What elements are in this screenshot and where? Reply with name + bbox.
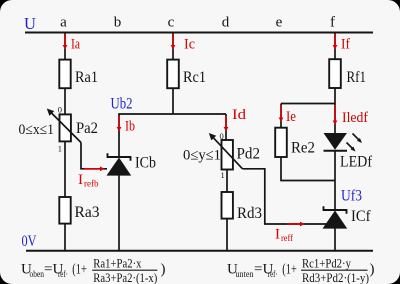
svg-text:Re2: Re2 bbox=[291, 140, 315, 157]
current arrow Ib bbox=[117, 116, 122, 131]
IC ICf cathode bar bbox=[324, 206, 347, 213]
svg-text:I: I bbox=[78, 172, 83, 188]
svg-text:Id: Id bbox=[232, 107, 247, 123]
svg-text:1: 1 bbox=[58, 144, 62, 154]
svg-text:Ra1: Ra1 bbox=[75, 69, 98, 86]
svg-text:ref·: ref· bbox=[58, 269, 68, 279]
svg-text:): ) bbox=[370, 262, 375, 278]
svg-text:Uf3: Uf3 bbox=[341, 188, 362, 205]
label Irefb bbox=[78, 172, 99, 189]
potentiometer Pd2 bbox=[222, 140, 233, 170]
ICf anode triangle bbox=[323, 211, 348, 229]
current arrow Irefb bbox=[84, 166, 104, 171]
svg-text:): ) bbox=[161, 262, 166, 278]
svg-text:Ie: Ie bbox=[286, 109, 296, 125]
svg-text:ICb: ICb bbox=[135, 155, 156, 172]
formula Uunten bbox=[227, 255, 375, 284]
svg-text:Pa2: Pa2 bbox=[76, 120, 98, 137]
potentiometer Pa2 bbox=[60, 114, 71, 141]
svg-text:Rd3: Rd3 bbox=[237, 205, 262, 222]
wire ICf to rail bbox=[334, 228, 336, 251]
svg-text:Rf1: Rf1 bbox=[347, 69, 367, 86]
current arrow If bbox=[333, 34, 338, 49]
wire Ub2 node bbox=[119, 114, 226, 156]
wire Pa2 to Ra3 bbox=[64, 141, 66, 197]
wire LED to ICf bbox=[334, 151, 336, 210]
svg-text:unten: unten bbox=[236, 269, 254, 279]
svg-text:Rd3+Pd2·(1-y): Rd3+Pd2·(1-y) bbox=[302, 270, 369, 284]
IC ICb cathode bar bbox=[108, 153, 131, 160]
svg-text:reff: reff bbox=[281, 233, 293, 243]
node 0V rail (bottom ground rail) bbox=[26, 250, 373, 252]
svg-text:Ra3+Pa2·(1-x): Ra3+Pa2·(1-x) bbox=[93, 270, 157, 284]
svg-text:refb: refb bbox=[84, 179, 99, 189]
svg-text:d: d bbox=[222, 15, 230, 31]
resistor Ra3 bbox=[59, 197, 70, 224]
wire rail to Rf1 bbox=[334, 33, 336, 60]
svg-text:b: b bbox=[114, 15, 122, 31]
resistor Rd3 bbox=[222, 192, 233, 219]
formula Uoben bbox=[21, 255, 166, 284]
wire Pd2 wiper to ICf ref bbox=[243, 169, 328, 224]
svg-text:Ra1+Pa2·x: Ra1+Pa2·x bbox=[93, 255, 142, 270]
svg-text:(1+: (1+ bbox=[72, 262, 87, 278]
Pd2 wiper arrow bbox=[209, 133, 243, 169]
svg-text:0: 0 bbox=[58, 105, 62, 115]
wire rail to Ra1 bbox=[64, 33, 66, 61]
current arrow Ie bbox=[279, 105, 284, 122]
wire node to Pd2 bbox=[225, 114, 227, 140]
wire Ra1 to Pa2 bbox=[64, 88, 66, 114]
svg-text:f: f bbox=[330, 15, 335, 31]
svg-text:a: a bbox=[60, 15, 67, 31]
wire Pd2 to Rd3 bbox=[226, 170, 228, 193]
svg-text:(1+: (1+ bbox=[282, 262, 297, 278]
svg-text:0≤x≤1: 0≤x≤1 bbox=[19, 122, 55, 138]
wire down to Re2 bbox=[280, 104, 282, 129]
svg-text:LEDf: LEDf bbox=[340, 154, 373, 171]
current arrow Ic bbox=[171, 34, 176, 49]
svg-text:Ra3: Ra3 bbox=[75, 204, 100, 221]
svg-text:c: c bbox=[168, 15, 175, 31]
wire Ra3 to rail bbox=[64, 224, 66, 251]
svg-text:If: If bbox=[341, 37, 350, 53]
svg-text:ref·: ref· bbox=[268, 269, 278, 279]
resistor Rf1 bbox=[329, 59, 341, 88]
current arrow Iledf bbox=[333, 105, 338, 125]
svg-text:Rc1+Pd2·y: Rc1+Pd2·y bbox=[302, 255, 351, 270]
svg-text:Iledf: Iledf bbox=[342, 110, 368, 126]
wire Re2 to LED cathode bbox=[281, 157, 335, 181]
svg-text:1: 1 bbox=[221, 170, 225, 180]
current arrow Ia bbox=[63, 34, 68, 49]
current arrow Ireff bbox=[287, 222, 304, 227]
LED LEDf triangle bbox=[324, 133, 348, 150]
wire branch to Re2 bbox=[281, 103, 335, 105]
svg-text:oben: oben bbox=[30, 269, 45, 279]
svg-text:Ic: Ic bbox=[184, 37, 195, 53]
LEDf cathode bar bbox=[324, 150, 348, 152]
node U rail (top supply rail) bbox=[25, 32, 373, 34]
Pa2 wiper arrow bbox=[47, 109, 81, 143]
wire Pa2 wiper to ICb ref bbox=[81, 143, 107, 169]
LEDf light arrow 1 bbox=[353, 134, 363, 144]
svg-text:0≤y≤1: 0≤y≤1 bbox=[183, 148, 221, 164]
svg-text:e: e bbox=[276, 15, 283, 31]
svg-text:Ib: Ib bbox=[125, 119, 135, 135]
svg-text:I: I bbox=[275, 227, 280, 243]
svg-text:Rc1: Rc1 bbox=[183, 69, 206, 86]
label Ireff bbox=[275, 227, 293, 244]
svg-text:Ub2: Ub2 bbox=[111, 96, 133, 113]
ICb anode triangle bbox=[107, 158, 132, 176]
resistor Rc1 bbox=[167, 60, 179, 89]
resistor Ra1 bbox=[59, 60, 70, 89]
svg-text:U: U bbox=[24, 14, 36, 33]
wire Rd3 to rail bbox=[226, 219, 228, 251]
svg-text:Pd2: Pd2 bbox=[237, 146, 261, 163]
svg-text:ICf: ICf bbox=[351, 208, 371, 225]
wire rail to Rc1 bbox=[172, 33, 174, 61]
current arrow Id bbox=[224, 116, 229, 131]
wire Rf1 to LED bbox=[334, 88, 336, 134]
svg-text:Ia: Ia bbox=[71, 37, 80, 53]
svg-text:0V: 0V bbox=[22, 233, 38, 250]
LEDf light arrow 2 bbox=[347, 143, 356, 152]
wire Rc1 to Ub2 node bbox=[172, 88, 174, 114]
wire ICb to rail bbox=[118, 175, 120, 251]
resistor Re2 bbox=[275, 128, 287, 157]
